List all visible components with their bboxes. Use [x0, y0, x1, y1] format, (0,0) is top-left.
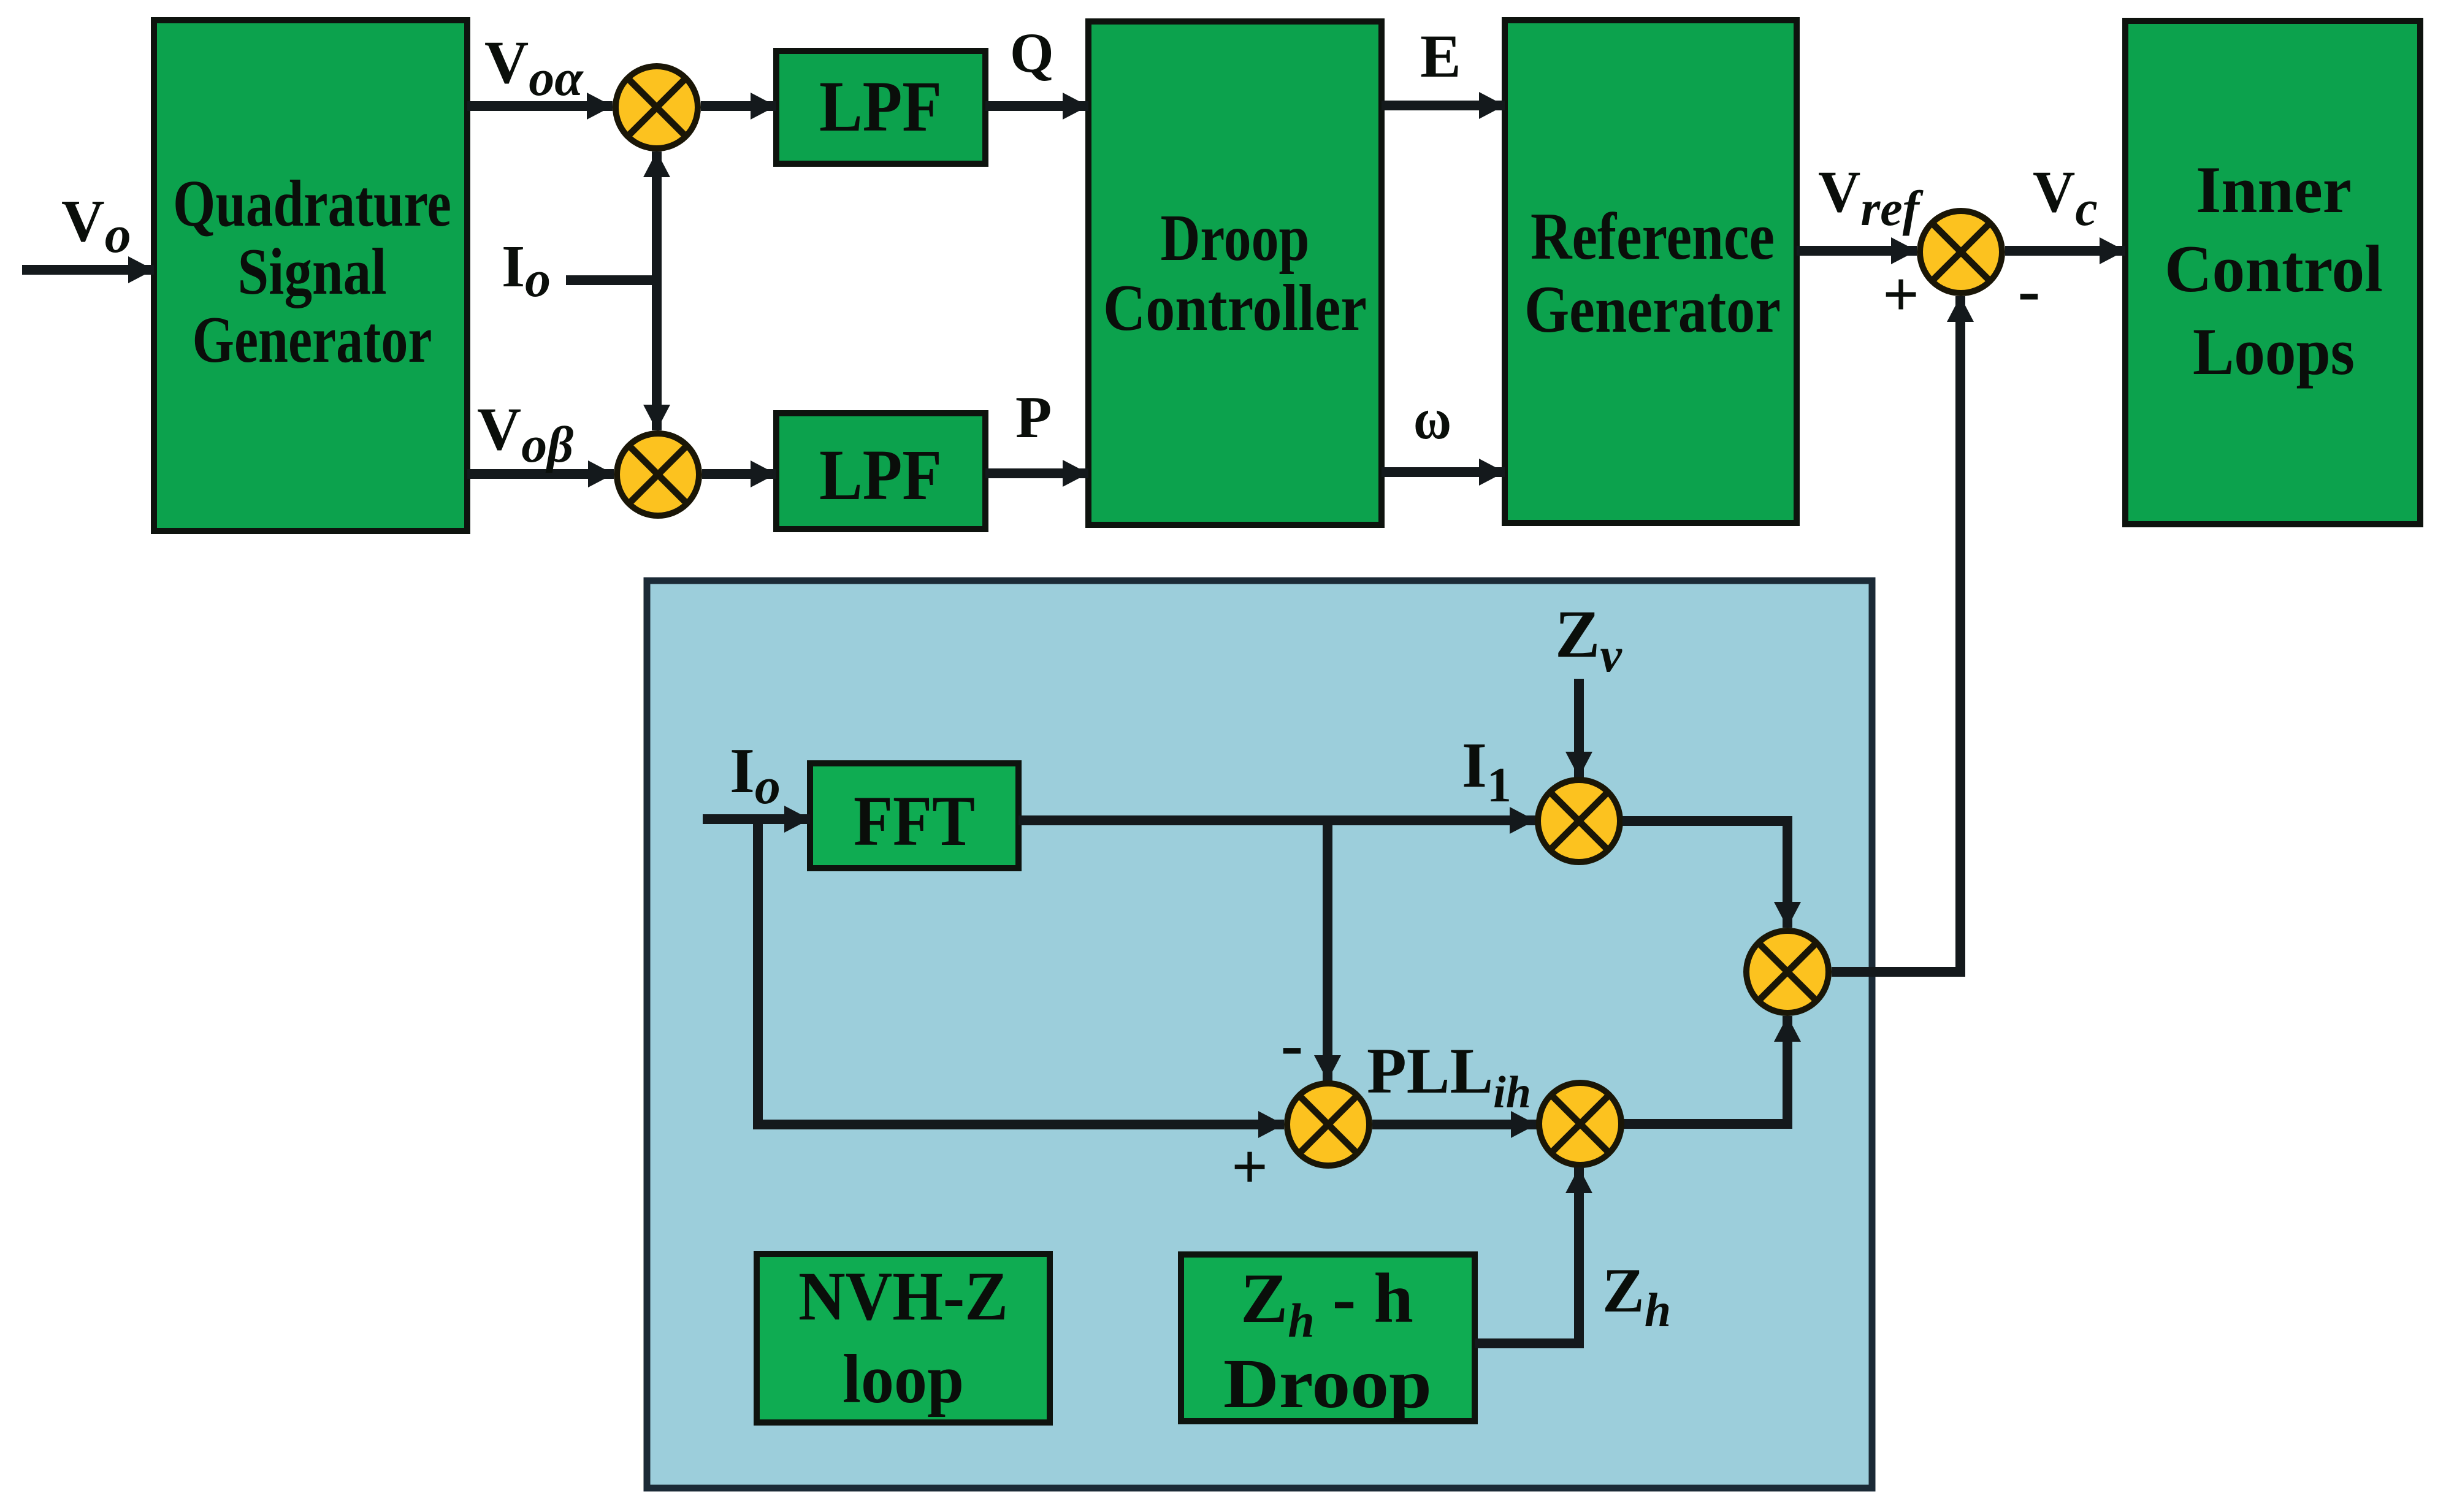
- block Reference Generator: [1505, 20, 1797, 523]
- label Zv: [1555, 597, 1622, 682]
- label Vc: [2033, 159, 2098, 236]
- svg-text:Control: Control: [2165, 232, 2383, 306]
- svg-text:Quadrature: Quadrature: [173, 167, 451, 240]
- svg-text:-: -: [1281, 1007, 1304, 1082]
- block LPF (bottom): [776, 413, 985, 529]
- block NVH-Z loop: [757, 1254, 1050, 1422]
- svg-text:Signal: Signal: [238, 235, 387, 308]
- label E: [1420, 22, 1461, 90]
- svg-text:Vo: Vo: [61, 188, 131, 264]
- label Zh: [1602, 1256, 1671, 1337]
- label PLLih: [1367, 1035, 1531, 1118]
- label P: [1015, 384, 1052, 450]
- svg-text:-: -: [2018, 253, 2041, 327]
- label Q: [1010, 21, 1054, 84]
- svg-text:Q: Q: [1010, 21, 1054, 84]
- svg-text:Droop: Droop: [1161, 202, 1310, 275]
- svg-text:Zh - h: Zh - h: [1240, 1259, 1413, 1347]
- svg-text:ω: ω: [1413, 386, 1451, 451]
- label minus at M3: [2018, 253, 2041, 327]
- label plus at M3: [1882, 258, 1919, 330]
- wire feedback vertical from M5 up to M3: [1832, 296, 1960, 972]
- svg-text:Vc: Vc: [2033, 159, 2098, 236]
- mixer M1 Voa x Io: [616, 66, 698, 148]
- wire Voa to mixer M1: [467, 101, 613, 111]
- svg-text:+: +: [1882, 258, 1919, 330]
- wire Io vertical between M1 and M2: [566, 151, 657, 430]
- label I1: [1462, 729, 1512, 812]
- label minus at M6: [1281, 1007, 1304, 1082]
- block Quadrature Signal Generator: [154, 20, 467, 531]
- wire M7 output to M5 bottom: [1624, 1016, 1787, 1124]
- wire Vc : mixer M3 to Inner Control Loops: [2005, 246, 2125, 256]
- wire Vo input: [22, 265, 154, 275]
- wire FFT output to mixer M4: [1019, 815, 1535, 825]
- wire Zv into mixer M4: [1574, 679, 1584, 777]
- block FFT: [810, 763, 1019, 868]
- block Zh-h Droop: [1181, 1254, 1475, 1422]
- mixer M5 output combiner: [1746, 931, 1829, 1013]
- block Droop Controller: [1088, 21, 1382, 525]
- mixer M6 PLL sum: [1287, 1083, 1369, 1166]
- blue subsystem box NVH-Z loop region: [647, 581, 1872, 1488]
- svg-text:Inner: Inner: [2196, 153, 2352, 227]
- mixer M7 PLL x Zh: [1539, 1083, 1621, 1165]
- mixer M2 Vob x Io: [617, 433, 699, 516]
- svg-text:Reference: Reference: [1531, 199, 1775, 273]
- svg-text:Generator: Generator: [193, 304, 432, 376]
- wire M6 output to M7: [1372, 1120, 1537, 1129]
- wire omega : Droop to Reference Generator: [1382, 467, 1505, 477]
- svg-text:FFT: FFT: [854, 782, 975, 861]
- wire E : Droop to Reference Generator: [1382, 101, 1505, 110]
- mixer M4 I1 x Zv: [1538, 780, 1620, 862]
- svg-text:Controller: Controller: [1103, 272, 1367, 345]
- svg-text:+: +: [1231, 1131, 1268, 1202]
- block LPF (top): [776, 51, 985, 164]
- wire M2 to LPF bottom: [702, 469, 776, 479]
- wire M1 to LPF top: [701, 101, 776, 111]
- svg-text:NVH-Z: NVH-Z: [798, 1258, 1008, 1335]
- svg-text:Vref: Vref: [1818, 159, 1924, 236]
- block Inner Control Loops: [2125, 21, 2420, 524]
- label Vo: [61, 188, 131, 264]
- label omega: [1413, 386, 1451, 451]
- wire Q : LPF to Droop Controller: [985, 101, 1088, 111]
- svg-text:LPF: LPF: [819, 435, 942, 515]
- wire M4 output to M5 top: [1622, 821, 1787, 928]
- label plus at M6: [1231, 1131, 1268, 1202]
- label Voa: [484, 28, 584, 107]
- label Vref: [1818, 159, 1924, 236]
- svg-text:Voβ: Voβ: [477, 395, 573, 473]
- svg-text:Generator: Generator: [1524, 272, 1781, 346]
- wire P : LPF to Droop Controller: [985, 468, 1088, 478]
- wire Io branch down to mixer M6: [758, 819, 1284, 1124]
- svg-text:loop: loop: [843, 1341, 964, 1418]
- mixer M3 Vref feedback: [1920, 211, 2002, 293]
- wire FFT branch down into M6 top: [1323, 820, 1332, 1081]
- wire Io into FFT: [703, 814, 810, 824]
- label Io blue box: [730, 735, 781, 815]
- svg-text:LPF: LPF: [819, 66, 942, 147]
- svg-text:E: E: [1420, 22, 1461, 90]
- wire Vref : Reference Generator to mixer M3: [1797, 246, 1917, 256]
- svg-text:Voα: Voα: [484, 28, 584, 107]
- wire Zh from Droop box up to M7: [1475, 1167, 1579, 1343]
- svg-text:Loops: Loops: [2193, 315, 2355, 389]
- svg-text:Io: Io: [502, 234, 551, 308]
- svg-text:Droop: Droop: [1223, 1345, 1432, 1422]
- wire Vob to mixer M2: [467, 469, 614, 479]
- svg-text:P: P: [1015, 384, 1052, 450]
- label Vob: [477, 395, 573, 473]
- label Io top: [502, 234, 551, 308]
